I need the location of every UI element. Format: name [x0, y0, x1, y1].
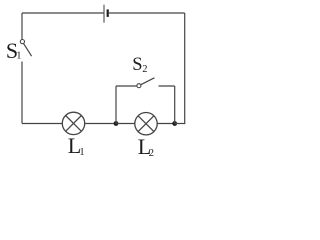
svg-text:2: 2: [142, 64, 147, 75]
label S2: [132, 55, 147, 75]
label L1: [68, 133, 85, 158]
wire left side lower: [21, 62, 23, 124]
wire node B to bottom-right corner: [175, 123, 186, 125]
wire branch right leg (down to node B): [174, 86, 176, 124]
wire branch left leg (node A up): [115, 86, 117, 124]
wire switch S2 to branch top right: [159, 85, 175, 87]
switch S2 blade: [141, 78, 155, 85]
wire left side upper: [21, 13, 23, 39]
svg-text:1: 1: [79, 147, 84, 158]
battery B1 short plate: [107, 9, 109, 17]
svg-text:1: 1: [16, 51, 21, 62]
node B junction dot: [172, 121, 177, 126]
switch S1 pivot circle: [20, 40, 24, 44]
wire node A to lamp L2: [116, 123, 135, 125]
lamp L2: [135, 113, 157, 135]
switch S1 blade: [24, 44, 32, 57]
wire branch top left to switch S2: [116, 85, 137, 87]
wire lamp L1 to node A: [85, 123, 117, 125]
wire bottom-left corner to lamp L1: [22, 123, 63, 125]
wire lamp L2 to node B: [157, 123, 175, 125]
node A junction dot: [114, 121, 119, 126]
wire right side down: [184, 13, 186, 124]
lamp L1: [62, 112, 84, 134]
svg-text:2: 2: [149, 148, 154, 159]
wire battery to top-right corner: [109, 12, 185, 14]
label L2: [138, 134, 154, 159]
battery B1 long plate: [103, 5, 105, 23]
label S1: [6, 38, 22, 63]
svg-text:S: S: [132, 55, 142, 75]
switch S2 pivot circle: [137, 84, 141, 88]
wire top-left to battery: [22, 12, 104, 14]
